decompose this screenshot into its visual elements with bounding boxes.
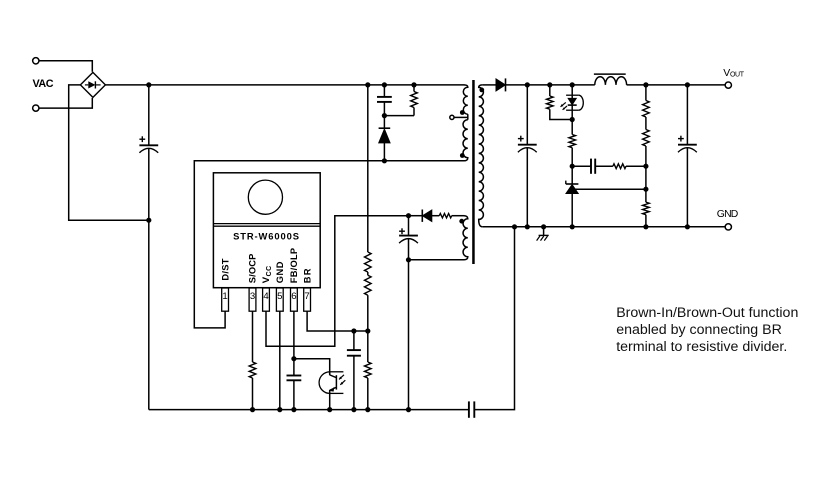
node: VOUT rail / LED bbox=[570, 82, 575, 87]
capacitor C2 clamp bbox=[377, 96, 392, 98]
node: FB junction bbox=[291, 356, 296, 361]
svg-text:D/ST: D/ST bbox=[220, 258, 230, 280]
svg-text:S/OCP: S/OCP bbox=[248, 254, 258, 284]
wire: FB cap branch bbox=[293, 359, 295, 376]
node: ground rail / divider lower bbox=[365, 407, 370, 412]
svg-text:GND: GND bbox=[717, 209, 738, 220]
secondary rectifier wire bbox=[482, 84, 496, 86]
node: clamp to drain line bbox=[382, 158, 387, 163]
node: VOUT rail / cap C10 bbox=[685, 82, 690, 87]
node: GND rail / TL431 bbox=[570, 224, 575, 229]
TL431 reference lead bbox=[575, 188, 646, 190]
resistor R3 divider upper bbox=[365, 252, 372, 272]
capacitor C8 output electrolytic 1 bbox=[526, 85, 528, 145]
node: rail/bulk cap bbox=[146, 82, 151, 87]
capacitor C4 Vcc electrolytic bbox=[408, 216, 410, 236]
transformer primary winding bbox=[463, 85, 468, 114]
LED of optocoupler bbox=[571, 85, 573, 98]
wire: pin1 D/ST route to drain bbox=[194, 161, 464, 328]
svg-text:3: 3 bbox=[250, 291, 255, 302]
terminal GND bbox=[725, 224, 731, 230]
pin 1 box bbox=[222, 288, 229, 311]
node: ground rail / FB cap bbox=[291, 407, 296, 412]
node: bulk cap negative junction bbox=[146, 218, 151, 223]
bridge rectifier internal diode bbox=[85, 84, 88, 86]
wire: bridge negative return (left vertex down and right) bbox=[69, 85, 149, 220]
package divider lines bbox=[213, 223, 320, 225]
shunt regulator U2 TL431 bbox=[571, 166, 573, 184]
pin 3 box bbox=[249, 288, 256, 311]
node: clamp junction bbox=[382, 113, 387, 118]
resistor R8 feedback series bbox=[569, 135, 576, 148]
capacitor C9 compensation bbox=[590, 159, 592, 174]
primary polarity dot lower bbox=[460, 153, 465, 158]
wire: FB to phototransistor collector bbox=[294, 359, 330, 374]
diode D3 aux rectifier bbox=[409, 215, 422, 217]
node: ground rail / S/OCP resistor bbox=[250, 407, 255, 412]
pin 7 box bbox=[304, 288, 311, 311]
svg-text:FB/OLP: FB/OLP bbox=[289, 248, 299, 284]
capacitor C10 output electrolytic 2 bbox=[686, 85, 688, 145]
svg-text:STR-W6000S: STR-W6000S bbox=[233, 231, 300, 242]
node: GND rail / cap C8 bbox=[525, 224, 530, 229]
optocoupler PC1 LED branch: parallel resistor R7 bbox=[549, 85, 551, 96]
node: rail/snubber resistor bbox=[411, 82, 416, 87]
wire: AC input top lead bbox=[39, 61, 92, 72]
primary polarity dot upper bbox=[460, 110, 465, 115]
svg-text:terminal to resistive divider.: terminal to resistive divider. bbox=[616, 339, 787, 355]
resistor R12 divider bottom bbox=[643, 202, 650, 215]
capacitor C5 FB/OLP bbox=[287, 375, 302, 377]
wire: main VIN rail bbox=[105, 84, 464, 86]
node: rail/BR divider bbox=[365, 82, 370, 87]
bridge rectifier BD1 diamond bbox=[80, 72, 105, 97]
node: BR divider tap bbox=[365, 328, 370, 333]
wire: Y-cap to secondary ground bbox=[474, 227, 514, 410]
resistor R6 aux series bbox=[439, 214, 451, 218]
svg-text:Brown-In/Brown-Out function: Brown-In/Brown-Out function bbox=[616, 305, 798, 321]
optocoupler PC1 phototransistor bbox=[319, 372, 330, 394]
inductor L1 core line bbox=[594, 73, 626, 75]
aux polarity dot bbox=[459, 219, 464, 224]
svg-text:7: 7 bbox=[304, 291, 309, 302]
compensation network wire bbox=[572, 165, 591, 167]
wire: pin5 GND down bbox=[279, 311, 281, 410]
node: ground rail / BR cap bbox=[351, 407, 356, 412]
wire: aux winding bottom bbox=[409, 259, 465, 261]
svg-text:6: 6 bbox=[291, 291, 296, 302]
transformer auxiliary winding bbox=[463, 216, 468, 260]
wire: bulk cap branch bbox=[148, 85, 150, 145]
node: GND rail / Y-cap link bbox=[512, 224, 517, 229]
terminal: AC input top bbox=[33, 58, 39, 64]
resistor R5 divider lower bbox=[365, 362, 372, 378]
svg-text:enabled by connecting BR: enabled by connecting BR bbox=[616, 322, 782, 338]
pin 4 box bbox=[263, 288, 270, 311]
terminal VOUT bbox=[725, 82, 731, 88]
node: BR cap tap bbox=[351, 328, 356, 333]
inductor L1 bbox=[595, 77, 627, 85]
pin 5 box bbox=[276, 288, 283, 311]
node: comp tap bbox=[643, 164, 648, 169]
wire: AC input bottom lead bbox=[39, 98, 92, 108]
node: ground rail / pin5 GND bbox=[277, 407, 282, 412]
LED D-shell bbox=[566, 94, 579, 96]
capacitor C1 bulk electrolytic bbox=[139, 144, 158, 146]
wire: pin3 S/OCP down bbox=[252, 311, 254, 362]
primary tap open terminal bbox=[450, 115, 454, 119]
diode D1 clamp bbox=[379, 129, 391, 143]
node: rail/snubber cap bbox=[382, 82, 387, 87]
secondary ground rail bbox=[482, 226, 725, 228]
wire: secondary VOUT rail bbox=[506, 84, 595, 86]
node: VOUT rail / divider bbox=[643, 82, 648, 87]
diode D2 secondary rectifier bbox=[496, 79, 506, 91]
resistor R1 clamp bbox=[413, 85, 415, 92]
IC U1 STR-W6000S package body bbox=[213, 173, 320, 288]
BR resistive divider from VIN rail bbox=[367, 85, 369, 252]
transformer secondary winding bbox=[479, 85, 484, 227]
Vcc node to aux supply bbox=[406, 213, 411, 218]
pin 6 box bbox=[291, 288, 298, 311]
node: GND rail / cap C10 bbox=[685, 224, 690, 229]
wire: clamp RC join bbox=[384, 115, 414, 117]
node: ground rail / photo emitter bbox=[327, 407, 332, 412]
node: reference tap bbox=[643, 187, 648, 192]
node: LED cathode / resistor join bbox=[570, 117, 575, 122]
node: ground rail / Vcc cap bbox=[406, 407, 411, 412]
svg-text:4: 4 bbox=[263, 291, 269, 302]
node A: TL431 cathode bbox=[570, 164, 575, 169]
LED emission arrows bbox=[561, 102, 566, 106]
capacitor C7 Y-cap bbox=[468, 401, 470, 417]
primary tap lead bbox=[454, 116, 468, 118]
frame ground symbol bbox=[543, 227, 545, 236]
resistor R2 S/OCP bbox=[249, 362, 256, 378]
node: GND rail / divider bbox=[643, 224, 648, 229]
resistor R9 compensation bbox=[613, 164, 626, 169]
secondary polarity dot bbox=[479, 88, 484, 93]
svg-text:5: 5 bbox=[277, 291, 282, 302]
node: VOUT rail / R7 bbox=[547, 82, 552, 87]
wire: pin7 BR to divider bbox=[307, 311, 368, 331]
terminal: AC input bottom bbox=[33, 105, 39, 111]
transformer T1 core bbox=[472, 80, 475, 264]
package mounting hole bbox=[248, 180, 282, 214]
light arrows into phototransistor bbox=[339, 375, 344, 380]
node: VOUT rail / cap C8 bbox=[525, 82, 530, 87]
wire: pin6 FB/OLP down bbox=[293, 311, 295, 359]
output voltage divider bbox=[645, 85, 647, 101]
wire: pin4 Vcc route bbox=[266, 216, 409, 347]
node: aux winding return bbox=[406, 257, 411, 262]
resistor R11 divider middle bbox=[643, 130, 650, 147]
node: GND rail / frame gnd bbox=[541, 224, 546, 229]
svg-text:1: 1 bbox=[222, 291, 227, 302]
svg-text:GND: GND bbox=[275, 261, 285, 283]
primary ground rail bbox=[149, 409, 469, 411]
resistor R4 divider middle bbox=[365, 275, 372, 295]
svg-text:VAC: VAC bbox=[33, 78, 54, 90]
resistor R10 divider top bbox=[643, 101, 650, 118]
svg-text:BR: BR bbox=[302, 267, 312, 283]
capacitor C6 BR filter bbox=[353, 331, 355, 350]
snubber: wire from rail to clamp cap bbox=[383, 85, 385, 97]
